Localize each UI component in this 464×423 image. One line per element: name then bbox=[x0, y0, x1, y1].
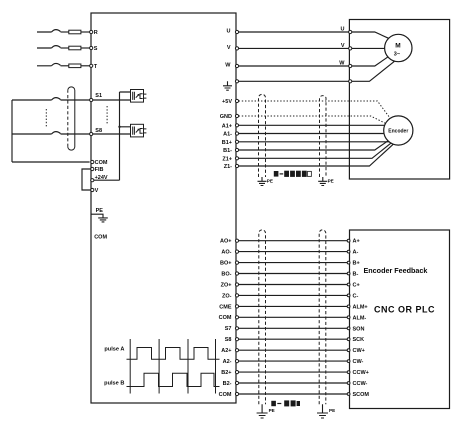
terminal A1+ drive side bbox=[235, 124, 238, 127]
+24V bus bbox=[93, 92, 130, 180]
wire GND to encoder bbox=[239, 116, 386, 123]
svg-text:B2+: B2+ bbox=[221, 370, 231, 376]
wire to terminal S bbox=[81, 47, 90, 49]
svg-text:COM: COM bbox=[219, 392, 232, 398]
terminal SCOM plc side bbox=[347, 393, 350, 396]
terminal B2+ drive side bbox=[235, 371, 238, 374]
encoder bbox=[384, 116, 413, 145]
terminal A+ plc side bbox=[347, 239, 350, 242]
svg-text:PE: PE bbox=[269, 408, 275, 413]
wire S8 external bbox=[12, 132, 90, 134]
svg-text:ALM-: ALM- bbox=[353, 315, 367, 321]
svg-text:GND: GND bbox=[220, 114, 232, 120]
svg-text:Z1-: Z1- bbox=[224, 164, 232, 170]
terminal COM drive side bbox=[235, 392, 238, 395]
shield ground PE bbox=[258, 177, 267, 186]
terminal ALM+ plc side bbox=[347, 305, 350, 308]
wire PE drive to motor bbox=[238, 80, 348, 82]
dots more inputs (internal) bbox=[106, 106, 108, 125]
shield ground PE bbox=[318, 177, 327, 186]
svg-text:ALM+: ALM+ bbox=[353, 304, 368, 310]
ground symbol at motor PE terminal bbox=[223, 81, 232, 90]
wire B2+ to CCW+ bbox=[238, 371, 348, 373]
svg-text:pulse B: pulse B bbox=[104, 380, 124, 386]
fuse FR bbox=[61, 31, 69, 33]
terminal S8 bbox=[90, 132, 93, 135]
svg-text:M: M bbox=[395, 43, 400, 50]
wire B2- to CCW- bbox=[238, 382, 348, 384]
wire A1- to encoder bbox=[239, 133, 384, 135]
wire Z1+ to encoder bbox=[239, 143, 391, 158]
terminal +24V bbox=[91, 179, 94, 182]
terminal PE drive side bbox=[235, 80, 238, 83]
svg-text:PE: PE bbox=[328, 179, 334, 184]
svg-text:U: U bbox=[227, 29, 231, 35]
terminal T bbox=[90, 64, 93, 67]
terminal U drive side bbox=[235, 30, 238, 33]
terminal AO+ drive side bbox=[235, 239, 238, 242]
terminal PE motor side bbox=[349, 80, 352, 83]
svg-text:A2+: A2+ bbox=[221, 348, 231, 354]
svg-text:Encoder Feedback: Encoder Feedback bbox=[364, 266, 428, 275]
wire COM to SCOM bbox=[238, 393, 348, 395]
terminal FIB bbox=[91, 167, 94, 170]
svg-text:Encoder: Encoder bbox=[388, 129, 408, 135]
terminal +5V drive side bbox=[235, 99, 238, 102]
svg-text:PE: PE bbox=[96, 208, 104, 214]
svg-text:BO-: BO- bbox=[221, 271, 231, 277]
terminal W drive side bbox=[235, 64, 238, 67]
svg-text:B1-: B1- bbox=[223, 148, 232, 154]
wire BO+ to B+ bbox=[238, 262, 348, 264]
terminal V bbox=[91, 188, 94, 191]
svg-text:A+: A+ bbox=[353, 239, 360, 245]
breaker switch on R phase bbox=[37, 30, 61, 32]
wire BO- to B- bbox=[238, 273, 348, 275]
cable shield loop (encoder wires) bbox=[320, 96, 327, 177]
terminal ZO+ drive side bbox=[235, 283, 238, 286]
terminal A2+ drive side bbox=[235, 349, 238, 352]
cable shield loop (signal wires) bbox=[319, 230, 326, 404]
svg-text:S8: S8 bbox=[95, 128, 102, 134]
svg-text:AO-: AO- bbox=[221, 250, 231, 256]
svg-text:AO+: AO+ bbox=[220, 239, 231, 245]
terminal B1- drive side bbox=[235, 148, 238, 151]
terminal A1- drive side bbox=[235, 132, 238, 135]
terminal COM drive side bbox=[235, 316, 238, 319]
svg-text:S1: S1 bbox=[95, 93, 102, 99]
svg-text:CNC OR PLC: CNC OR PLC bbox=[374, 305, 435, 315]
wire COM to ALM- bbox=[238, 316, 348, 318]
terminal AO- drive side bbox=[235, 250, 238, 253]
svg-text:V: V bbox=[95, 188, 99, 194]
fuse FT bbox=[61, 65, 69, 67]
servo drive block U0 bbox=[91, 13, 236, 403]
terminal ALM- plc side bbox=[347, 316, 350, 319]
terminal GND drive side bbox=[235, 114, 238, 117]
wire A2- to CW- bbox=[238, 360, 348, 362]
svg-text:B1+: B1+ bbox=[222, 140, 232, 146]
cable shield capsule bbox=[67, 90, 69, 147]
wire W inside motor block bbox=[352, 57, 388, 66]
terminal CCW+ plc side bbox=[347, 371, 350, 374]
wire S7 to SON bbox=[238, 327, 348, 329]
svg-text:C-: C- bbox=[353, 293, 359, 299]
note: shielded-cable text (CJK, drawn as glyph blobs) bbox=[274, 171, 312, 177]
wire Z1- to encoder bbox=[239, 144, 394, 166]
terminal S1 bbox=[90, 98, 93, 101]
svg-text:ZO+: ZO+ bbox=[221, 282, 232, 288]
terminal ZO- drive side bbox=[235, 294, 238, 297]
terminal Z1+ drive side bbox=[235, 157, 238, 160]
wire AO+ to A+ bbox=[238, 240, 348, 242]
terminal C+ plc side bbox=[347, 283, 350, 286]
wire to terminal R bbox=[81, 31, 90, 33]
wire V drive to motor bbox=[238, 47, 348, 49]
svg-text:pulse A: pulse A bbox=[104, 347, 124, 353]
waveform pulse B bbox=[127, 373, 220, 386]
svg-text:B2-: B2- bbox=[223, 381, 232, 387]
waveform pulse A bbox=[127, 348, 220, 360]
wire +24V to bus bbox=[94, 179, 120, 181]
svg-text:CCW-: CCW- bbox=[353, 381, 368, 387]
wire S1 external bbox=[12, 98, 90, 100]
terminal S8 drive side bbox=[235, 338, 238, 341]
terminal U motor side bbox=[349, 30, 352, 33]
svg-text:CME: CME bbox=[219, 304, 232, 310]
wire PE inside motor block bbox=[352, 61, 395, 81]
terminal BO+ drive side bbox=[235, 261, 238, 264]
wire A2+ to CW+ bbox=[238, 349, 348, 351]
shield ground PE bbox=[317, 404, 328, 418]
svg-text:A-: A- bbox=[353, 250, 359, 256]
svg-text:B+: B+ bbox=[353, 261, 360, 267]
svg-text:ZO-: ZO- bbox=[222, 293, 232, 299]
svg-text:CW+: CW+ bbox=[353, 348, 365, 354]
wire A1+ to encoder bbox=[239, 124, 385, 126]
shield ground PE bbox=[257, 404, 268, 418]
terminal W motor side bbox=[349, 64, 352, 67]
terminal A- plc side bbox=[347, 250, 350, 253]
terminal CCW- plc side bbox=[347, 382, 350, 385]
wire CME to ALM+ bbox=[238, 305, 348, 307]
wire S8 to SCK bbox=[238, 338, 348, 340]
wire common return bbox=[12, 100, 90, 162]
svg-text:V: V bbox=[341, 43, 345, 49]
terminal B2- drive side bbox=[235, 381, 238, 384]
wire B1- to encoder bbox=[239, 141, 388, 150]
terminal SCK plc side bbox=[347, 338, 350, 341]
svg-text:3~: 3~ bbox=[394, 52, 400, 58]
cable shield loop (encoder wires) bbox=[259, 94, 266, 177]
wire +5V to encoder bbox=[239, 101, 390, 118]
optocoupler input S bbox=[131, 124, 144, 137]
wire U inside motor block bbox=[352, 32, 389, 38]
svg-text:+5V: +5V bbox=[222, 99, 232, 105]
svg-text:W: W bbox=[225, 63, 231, 69]
terminal C- plc side bbox=[347, 294, 350, 297]
wire ZO+ to C+ bbox=[238, 284, 348, 286]
svg-text:A1+: A1+ bbox=[222, 123, 232, 129]
motor block enclosure bbox=[349, 20, 449, 180]
svg-text:S7: S7 bbox=[225, 326, 232, 332]
wire W drive to motor bbox=[238, 65, 348, 67]
wire V inside motor block bbox=[352, 47, 385, 49]
terminal B1+ drive side bbox=[235, 140, 238, 143]
breaker switch on S phase bbox=[37, 46, 61, 48]
svg-text:B-: B- bbox=[353, 272, 359, 278]
svg-text:FIB: FIB bbox=[95, 167, 104, 173]
svg-text:U: U bbox=[341, 27, 345, 33]
terminal A2- drive side bbox=[235, 360, 238, 363]
svg-text:CCW+: CCW+ bbox=[353, 370, 369, 376]
CNC OR PLC block bbox=[350, 230, 450, 409]
svg-text:W: W bbox=[339, 61, 345, 67]
svg-text:SCK: SCK bbox=[353, 337, 365, 343]
wire AO- to A- bbox=[238, 251, 348, 253]
terminal CW- plc side bbox=[347, 360, 350, 363]
svg-text:COM: COM bbox=[95, 160, 108, 166]
svg-text:BO+: BO+ bbox=[220, 261, 231, 267]
motor M 3~ bbox=[385, 34, 412, 61]
wire U drive to motor bbox=[238, 31, 348, 33]
wire B1+ to encoder bbox=[239, 141, 389, 143]
svg-text:PE: PE bbox=[329, 408, 335, 413]
terminal CW+ plc side bbox=[347, 349, 350, 352]
svg-text:PE: PE bbox=[267, 179, 273, 184]
terminal BO- drive side bbox=[235, 272, 238, 275]
dots more inputs (external) bbox=[45, 109, 47, 127]
terminal V drive side bbox=[235, 47, 238, 50]
svg-text:COM: COM bbox=[94, 235, 107, 241]
terminal S7 drive side bbox=[235, 327, 238, 330]
svg-text:SON: SON bbox=[353, 326, 365, 332]
jumper FIB to V bbox=[82, 169, 91, 190]
fuse FS bbox=[61, 47, 69, 49]
terminal B+ plc side bbox=[347, 261, 350, 264]
optocoupler input S bbox=[131, 90, 144, 103]
svg-text:A1-: A1- bbox=[223, 132, 232, 138]
svg-text:CW-: CW- bbox=[353, 359, 364, 365]
svg-text:R: R bbox=[94, 30, 98, 36]
terminal COM bbox=[91, 160, 94, 163]
breaker switch on T phase bbox=[37, 63, 61, 65]
note: shielded-cable text bottom (CJK, drawn as glyph blobs) bbox=[271, 400, 300, 406]
svg-text:S: S bbox=[94, 46, 98, 52]
terminal V motor side bbox=[349, 47, 352, 50]
terminal R bbox=[90, 30, 93, 33]
svg-text:A2-: A2- bbox=[223, 359, 232, 365]
wire ZO- to C- bbox=[238, 294, 348, 296]
svg-text:COM: COM bbox=[219, 315, 232, 321]
terminal SON plc side bbox=[347, 327, 350, 330]
svg-text:C+: C+ bbox=[353, 283, 360, 289]
terminal CME drive side bbox=[235, 305, 238, 308]
svg-text:Z1+: Z1+ bbox=[222, 156, 232, 162]
cable shield loop (signal wires) bbox=[259, 230, 266, 404]
terminal Z1- drive side bbox=[235, 164, 238, 167]
terminal S bbox=[90, 46, 93, 49]
wire to terminal T bbox=[81, 65, 90, 67]
svg-text:V: V bbox=[227, 45, 231, 51]
svg-text:SCOM: SCOM bbox=[353, 392, 370, 398]
terminal B- plc side bbox=[347, 272, 350, 275]
phase reference lines bbox=[129, 339, 131, 394]
svg-text:S8: S8 bbox=[225, 337, 232, 343]
